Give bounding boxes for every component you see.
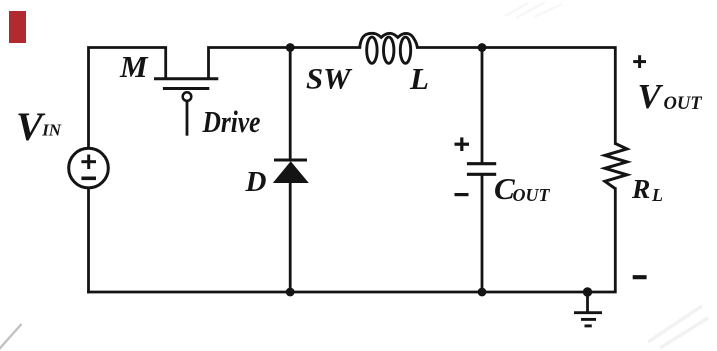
capacitor COUT top plate [467,162,496,165]
mosfet M channel bar [154,77,218,80]
junction node dot L-COUT top [478,43,487,52]
wire: top-left loop and MOSFET source vertical [89,48,166,149]
svg-text:R: R [631,173,650,204]
wire: ground stub [586,292,589,311]
capacitor COUT bottom plate [467,173,496,176]
mosfet gate bubble [183,92,192,101]
wire: MOSFET drain vertical and top rail to SW/inductor [209,48,360,78]
wire: COUT top vertical [481,48,484,163]
svg-text:OUT: OUT [664,94,703,114]
inductor L coil [360,33,418,63]
svg-text:L: L [651,185,663,205]
junction node dot COUT bottom [478,288,487,297]
svg-text:OUT: OUT [513,185,551,205]
wire: inductor right to top-right corner down to resistor [417,48,615,144]
svg-text:IN: IN [41,121,62,140]
svg-text:V: V [638,77,664,116]
svg-text:L: L [409,61,429,96]
svg-text:Drive: Drive [202,104,261,139]
wire: SW node vertical to diode [289,48,292,159]
diode D cathode bar [274,159,307,162]
mosfet M gate bar [163,87,209,90]
gate drive wire [186,101,189,136]
watermark ghost top [505,2,562,18]
VOUT plus sign [633,55,647,277]
hidden red square artifact [9,11,26,43]
voltage source VIN circle [69,148,109,188]
svg-text:M: M [119,49,149,84]
wire: VIN lower vertical [87,188,90,292]
VIN plus sign [81,155,96,179]
capacitor minus sign [455,193,469,196]
svg-text:D: D [245,166,267,198]
junction node dot SW top [286,43,295,52]
capacitor plus sign [455,137,470,194]
VOUT minus sign [633,275,647,279]
VIN minus sign [81,177,96,181]
watermark ghost bottom right [648,306,708,348]
junction node dot ground [583,287,592,296]
wire: bottom rail and right vertical below resistor [89,189,616,292]
junction node dot diode bottom [286,288,295,297]
corner diagonal mark [0,324,22,351]
wire: diode anode to bottom rail [289,183,292,293]
ground symbol bars [574,313,602,326]
svg-text:SW: SW [306,62,353,95]
wire: COUT bottom vertical [481,176,484,292]
diode D triangle [273,161,309,183]
resistor RL zigzag [605,144,627,189]
